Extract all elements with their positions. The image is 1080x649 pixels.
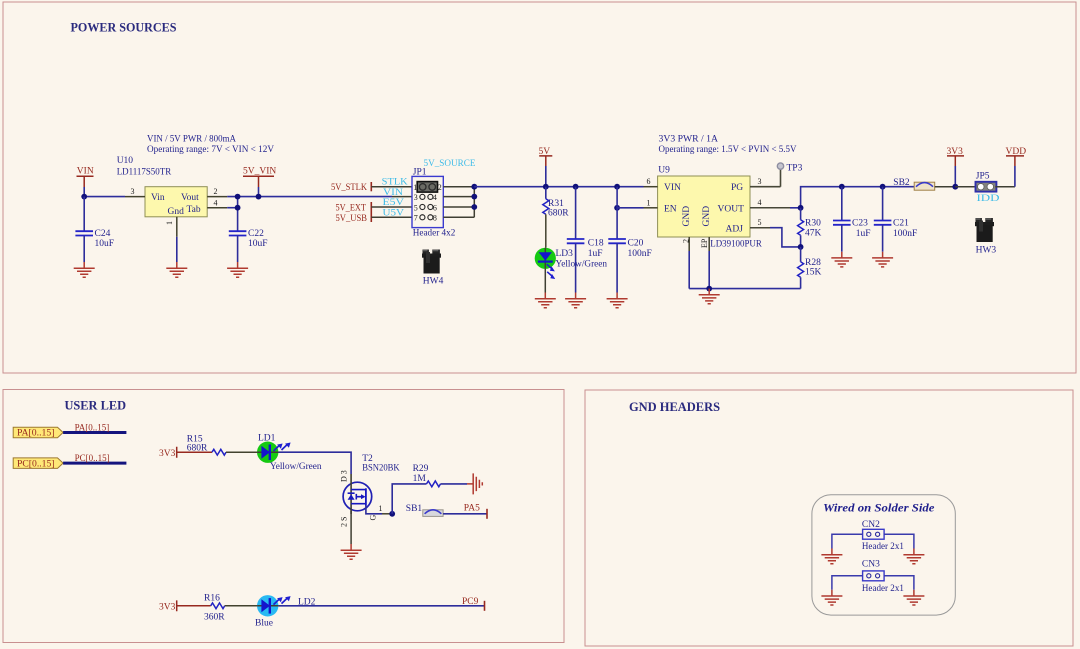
svg-text:2: 2 (214, 187, 218, 196)
wire gate to node (382, 513, 392, 515)
svg-text:100nF: 100nF (893, 229, 917, 239)
ground under U9 (699, 289, 720, 304)
svg-text:POWER SOURCES: POWER SOURCES (71, 21, 177, 35)
wire CN2 right (884, 534, 914, 548)
resistor R28 (798, 247, 822, 289)
sheet entry PA[0..15] (13, 427, 63, 437)
port PC9 (462, 597, 485, 611)
svg-text:U10: U10 (117, 156, 134, 166)
pin 6 U9 VIN (644, 186, 658, 188)
wire JP5 to VDD (995, 186, 1015, 188)
transistor T2 (340, 454, 400, 527)
svg-text:ADJ: ADJ (726, 224, 744, 234)
node 3V3 junction (952, 184, 958, 190)
svg-text:3: 3 (414, 193, 418, 202)
svg-text:47K: 47K (805, 228, 822, 238)
wire LD2 to PC9 (278, 605, 484, 607)
svg-text:R16: R16 (204, 593, 220, 603)
svg-text:2 S: 2 S (340, 517, 349, 527)
svg-text:GND: GND (702, 206, 712, 227)
resistor R31 (543, 187, 569, 248)
resistor R29 (392, 464, 467, 514)
svg-text:2: 2 (438, 183, 442, 192)
power port VDD (1006, 147, 1027, 166)
svg-text:3: 3 (758, 177, 762, 186)
box Wired on Solder Side (812, 495, 955, 615)
ground under C23 (831, 252, 852, 267)
header JP1 (412, 167, 456, 238)
panel POWER SOURCES (3, 2, 1076, 373)
capacitor C22 (229, 229, 268, 262)
ground under C24 (74, 262, 95, 277)
node VIN junction (81, 194, 87, 200)
svg-text:C24: C24 (95, 229, 111, 239)
power port 3V3 (LD1) (159, 447, 212, 459)
wire gnd bus U9 (689, 288, 800, 290)
ground under U10 (166, 262, 187, 277)
ground under T2 (341, 544, 362, 559)
svg-text:Vout: Vout (181, 193, 199, 203)
svg-text:PA[0..15]: PA[0..15] (75, 422, 110, 432)
svg-text:LD1117S50TR: LD1117S50TR (117, 168, 172, 178)
node C20 EN junction (614, 205, 620, 211)
wire 5V rail (474, 186, 643, 188)
testpoint TP3 (777, 163, 783, 169)
svg-text:1uF: 1uF (588, 249, 603, 259)
node U9 gnd junction (706, 286, 712, 292)
svg-text:10uF: 10uF (95, 239, 115, 249)
wire VOUT to 3V3 rail (790, 187, 914, 208)
svg-text:1: 1 (165, 221, 174, 225)
wire node to JP5 (955, 186, 975, 188)
power port 3V3 (947, 147, 965, 187)
svg-text:5V_USB: 5V_USB (336, 214, 368, 224)
power port 3V3 (LD2) (159, 600, 211, 612)
svg-text:680R: 680R (187, 444, 208, 454)
svg-text:5V_EXT: 5V_EXT (336, 204, 367, 214)
solder bridge SB1 (406, 504, 443, 516)
svg-text:3: 3 (131, 187, 135, 196)
svg-text:SB1: SB1 (406, 504, 423, 514)
svg-text:PC[0..15]: PC[0..15] (17, 458, 55, 468)
node C18 junction (573, 184, 579, 190)
svg-text:PC9: PC9 (462, 597, 479, 607)
svg-text:HW4: HW4 (423, 276, 444, 286)
svg-text:Operating range: 7V < VIN < 12: Operating range: 7V < VIN < 12V (147, 145, 274, 155)
panel USER LED (3, 390, 564, 643)
wire SB2 to node (935, 186, 956, 188)
svg-text:5V_STLK: 5V_STLK (331, 183, 367, 193)
svg-text:GND: GND (682, 206, 692, 227)
ground under C22 (227, 262, 248, 277)
wire SB1 to PA5 (443, 513, 487, 515)
capacitor C21 (874, 187, 917, 252)
regulator U10 (117, 156, 208, 217)
header CN3 (862, 560, 904, 594)
svg-text:R30: R30 (805, 219, 821, 229)
svg-text:1uF: 1uF (856, 229, 871, 239)
pin 1 U10 gnd (176, 217, 178, 237)
pin 2 U10 (207, 196, 227, 198)
jumper HW4 (422, 250, 441, 274)
svg-text:1M: 1M (413, 474, 427, 484)
svg-text:VIN: VIN (77, 167, 94, 177)
ground CN3 left (821, 590, 842, 605)
svg-text:BSN20BK: BSN20BK (362, 464, 400, 474)
node C20 top junction (614, 184, 620, 190)
port 5V_EXT (336, 202, 372, 222)
svg-text:EP: EP (700, 238, 709, 248)
svg-text:LD1: LD1 (258, 434, 276, 444)
regulator U9 (658, 166, 763, 250)
capacitor C23 (833, 187, 870, 252)
panel GND HEADERS (585, 390, 1073, 646)
pin 3 U10 (125, 196, 145, 198)
wire 5V_VIN rail (84, 196, 125, 198)
svg-text:Header 4x2: Header 4x2 (413, 228, 456, 238)
svg-text:C22: C22 (248, 229, 264, 239)
bus PC (63, 462, 126, 465)
ground CN2 left (821, 549, 842, 564)
node pin2 junction (235, 194, 241, 200)
pin 1 U9 EN (644, 207, 658, 209)
wire CN2 left (832, 534, 863, 548)
svg-text:8: 8 (433, 214, 437, 223)
sheet entry PC[0..15] (13, 458, 63, 469)
svg-text:TP3: TP3 (787, 163, 803, 173)
wire ADJ (770, 228, 801, 247)
solder bridge SB2 (893, 178, 934, 190)
ground under C20 (607, 293, 628, 308)
wire pin4 to C22 (227, 207, 237, 209)
svg-text:4: 4 (433, 193, 437, 202)
wire E5V row (371, 206, 412, 208)
svg-text:U9: U9 (658, 166, 670, 176)
svg-text:GND HEADERS: GND HEADERS (629, 400, 720, 414)
ground under LD3 (535, 293, 556, 308)
svg-text:R28: R28 (805, 258, 821, 268)
port 5V_STLK (331, 182, 371, 193)
power port VIN (77, 167, 94, 197)
wire EN (617, 207, 643, 209)
power port 5V_VIN (243, 167, 276, 197)
svg-text:4: 4 (214, 199, 218, 208)
svg-text:PG: PG (731, 183, 743, 193)
svg-text:VOUT: VOUT (718, 205, 745, 215)
svg-text:5: 5 (414, 203, 418, 212)
resistor R30 (798, 208, 822, 247)
power port 5V (539, 147, 553, 187)
svg-text:CN2: CN2 (862, 520, 880, 530)
svg-text:1: 1 (647, 198, 651, 207)
svg-text:E5V: E5V (383, 198, 405, 208)
svg-text:CN3: CN3 (862, 560, 880, 570)
wire VIN row (392, 196, 412, 198)
node C23 junction (839, 184, 845, 190)
resistor R15 (187, 435, 257, 456)
pin 2 U9 GND (688, 237, 690, 251)
node JP1 out row1 (471, 184, 477, 190)
svg-text:6: 6 (433, 203, 437, 212)
svg-text:5: 5 (758, 218, 762, 227)
svg-text:EN: EN (664, 205, 677, 215)
wire JP1 right leads (443, 187, 474, 218)
svg-text:Yellow/Green: Yellow/Green (270, 462, 322, 472)
node gate junction (389, 511, 395, 517)
wire LD1 to T2 drain (278, 452, 351, 474)
wire STLK row (371, 186, 412, 188)
svg-text:C18: C18 (588, 239, 604, 249)
svg-text:Blue: Blue (255, 619, 273, 629)
svg-text:R31: R31 (548, 199, 564, 209)
svg-text:15K: 15K (805, 268, 822, 278)
svg-text:5V_VIN: 5V_VIN (243, 167, 276, 177)
svg-text:100nF: 100nF (628, 249, 652, 259)
svg-text:LD3: LD3 (556, 249, 574, 259)
svg-text:Header 2x1: Header 2x1 (862, 584, 904, 594)
svg-text:680R: 680R (548, 209, 569, 219)
wire U5V row (371, 216, 412, 218)
svg-text:T2: T2 (362, 454, 373, 464)
svg-text:6: 6 (647, 177, 651, 186)
svg-text:VIN / 5V PWR / 800mA: VIN / 5V PWR / 800mA (147, 135, 236, 145)
wire CN3 right (884, 576, 914, 590)
pin EP U9 (708, 237, 710, 251)
svg-text:USER LED: USER LED (65, 399, 127, 413)
svg-text:3V3: 3V3 (159, 449, 176, 459)
ground CN2 right (903, 549, 924, 564)
capacitor C20 (608, 187, 651, 293)
svg-text:Operating range: 1.5V < PVIN <: Operating range: 1.5V < PVIN < 5.5V (659, 145, 797, 155)
ground rotated at R29 (467, 473, 482, 494)
svg-text:PC[0..15]: PC[0..15] (75, 453, 110, 463)
svg-text:VIN: VIN (383, 188, 403, 198)
jumper HW3 (975, 218, 994, 242)
bus PA (63, 431, 126, 434)
resistor R16 (204, 593, 257, 622)
capacitor C24 (75, 197, 114, 262)
header CN2 (862, 520, 904, 552)
svg-text:U5V: U5V (383, 209, 405, 219)
svg-text:JP5: JP5 (976, 171, 990, 181)
LED LD2 (255, 595, 316, 628)
svg-text:PA5: PA5 (464, 504, 480, 514)
LED LD3 (535, 248, 608, 279)
node 5V_VIN junction (256, 194, 262, 200)
svg-text:10uF: 10uF (248, 239, 268, 249)
svg-text:Tab: Tab (187, 205, 201, 215)
port PA5 (464, 504, 487, 519)
svg-text:PA[0..15]: PA[0..15] (17, 428, 55, 438)
ground under C18 (565, 293, 586, 308)
svg-text:7: 7 (414, 214, 418, 223)
svg-text:Gnd: Gnd (168, 207, 185, 217)
node 5V junction (543, 184, 549, 190)
svg-text:4: 4 (758, 198, 762, 207)
svg-text:Vin: Vin (151, 193, 165, 203)
node ADJ junction (798, 244, 804, 250)
svg-text:SB2: SB2 (893, 178, 910, 188)
svg-text:Wired on Solder Side: Wired on Solder Side (823, 501, 935, 515)
svg-text:R29: R29 (413, 464, 429, 474)
svg-text:360R: 360R (204, 613, 225, 623)
svg-text:5V_SOURCE: 5V_SOURCE (424, 159, 476, 169)
node JP1 out row3 (471, 204, 477, 210)
svg-text:STLK: STLK (382, 178, 408, 188)
svg-text:3V3: 3V3 (159, 603, 176, 613)
node pin4 junction (235, 205, 241, 211)
node VOUT junction (798, 205, 804, 211)
wire PG to TP3 (750, 169, 781, 186)
svg-text:1: 1 (379, 504, 383, 513)
wire LD3 to gnd (544, 269, 546, 293)
svg-text:2: 2 (681, 239, 690, 243)
svg-text:Header 2x1: Header 2x1 (862, 542, 904, 552)
wire T2 source to gnd (350, 511, 352, 544)
pin 4 U10 (207, 207, 227, 209)
svg-text:C23: C23 (852, 219, 868, 229)
pin 4 U9 VOUT (750, 207, 790, 209)
node C21 junction (880, 184, 886, 190)
svg-text:VIN: VIN (664, 183, 681, 193)
svg-text:G: G (369, 515, 378, 521)
jumper JP5 (976, 171, 1000, 204)
ground CN3 right (903, 590, 924, 605)
svg-text:LD39100PUR: LD39100PUR (710, 239, 762, 249)
svg-text:HW3: HW3 (976, 246, 997, 256)
node JP1 out row2 (471, 194, 477, 200)
svg-text:3V3 PWR / 1A: 3V3 PWR / 1A (659, 135, 719, 145)
svg-text:D 3: D 3 (340, 470, 349, 482)
LED LD1 (257, 434, 322, 472)
svg-text:Yellow/Green: Yellow/Green (556, 259, 608, 269)
wire CN3 left (832, 576, 863, 590)
capacitor C18 (567, 187, 604, 293)
pin 5 U9 ADJ (750, 227, 770, 229)
ground under C21 (872, 252, 893, 267)
svg-text:C21: C21 (893, 219, 909, 229)
svg-text:C20: C20 (628, 239, 644, 249)
svg-text:IDD: IDD (977, 194, 1000, 204)
